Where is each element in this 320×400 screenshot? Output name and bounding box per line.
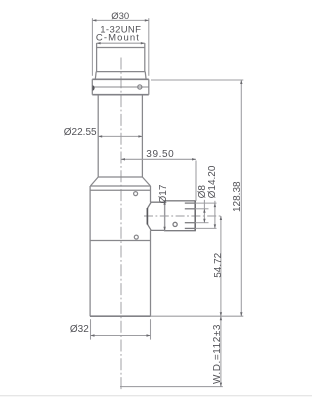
svg-text:C-Mount: C-Mount <box>96 33 140 44</box>
svg-text:Ø30: Ø30 <box>111 11 129 22</box>
svg-text:Ø32: Ø32 <box>70 324 89 335</box>
svg-text:128.38: 128.38 <box>232 181 243 212</box>
svg-text:Ø17: Ø17 <box>158 184 169 203</box>
svg-text:Ø14.20: Ø14.20 <box>207 165 218 198</box>
svg-text:W.D.=112±3: W.D.=112±3 <box>212 324 223 384</box>
svg-text:54.72: 54.72 <box>213 252 224 277</box>
svg-text:Ø8: Ø8 <box>197 185 208 199</box>
svg-text:Ø22.55: Ø22.55 <box>64 127 97 138</box>
svg-text:39.50: 39.50 <box>146 149 174 160</box>
